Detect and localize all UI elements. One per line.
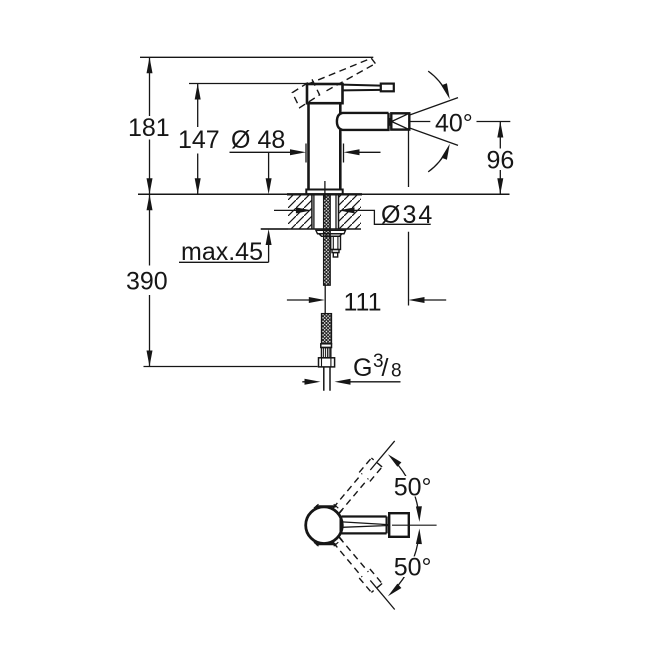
svg-text:Ø: Ø	[231, 126, 250, 154]
svg-text:50°: 50°	[394, 473, 432, 501]
svg-text:8: 8	[391, 361, 402, 382]
svg-text:181: 181	[128, 114, 170, 142]
svg-text:40°: 40°	[435, 110, 473, 138]
svg-text:111: 111	[344, 288, 382, 316]
svg-text:50°: 50°	[394, 554, 432, 582]
svg-text:Ø34: Ø34	[381, 201, 434, 229]
svg-text:48: 48	[258, 126, 286, 154]
svg-text:/: /	[382, 354, 389, 382]
svg-text:390: 390	[126, 267, 168, 295]
svg-text:max.45: max.45	[181, 238, 263, 266]
svg-text:96: 96	[487, 147, 515, 175]
svg-text:G: G	[353, 354, 372, 382]
svg-text:147: 147	[178, 126, 220, 154]
